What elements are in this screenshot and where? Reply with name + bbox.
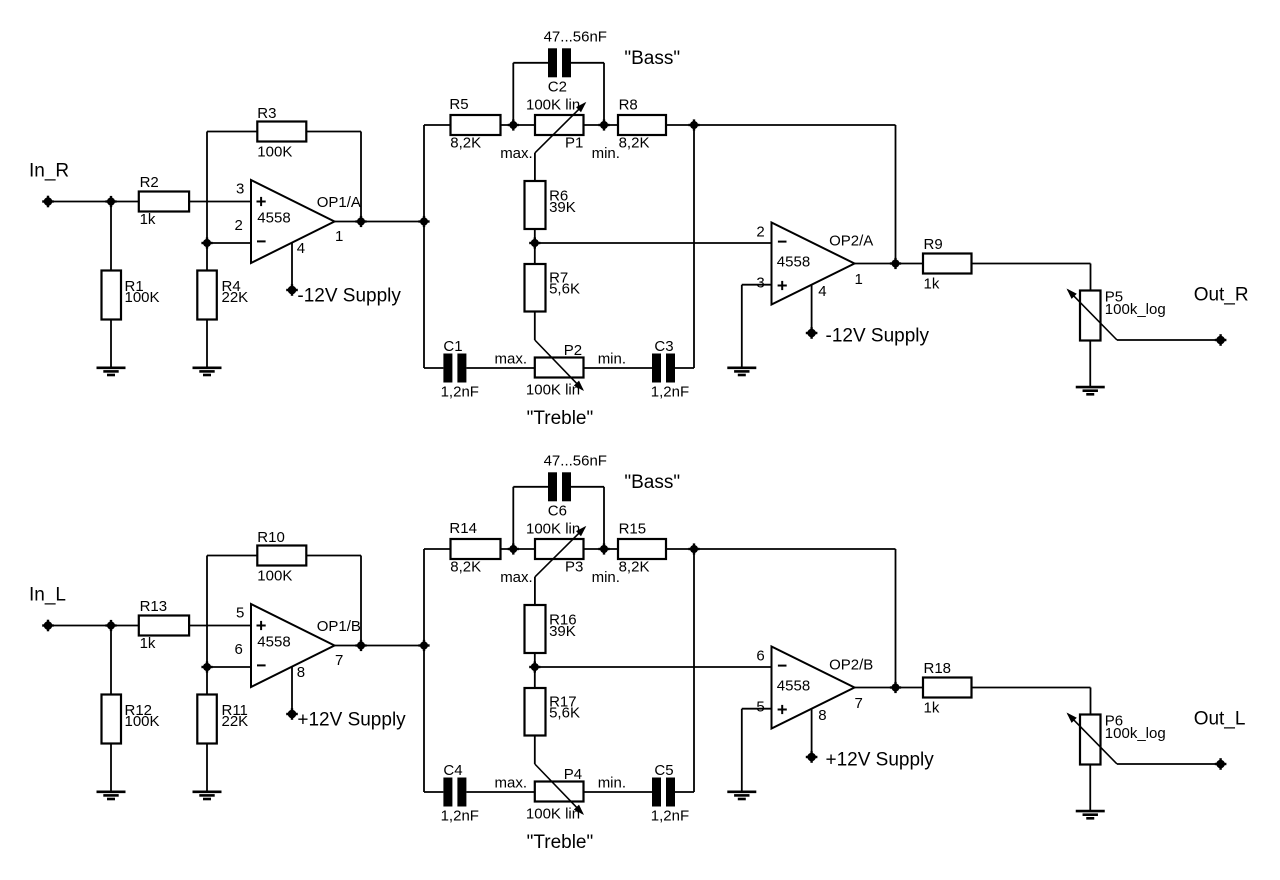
junction bass right node <box>598 119 609 130</box>
resistor R16 <box>525 605 546 653</box>
svg-text:39K: 39K <box>549 199 576 216</box>
capacitor C5 <box>652 778 675 807</box>
wire R5 to P1 <box>501 124 536 126</box>
svg-text:1,2nF: 1,2nF <box>651 807 689 824</box>
svg-text:R2: R2 <box>140 174 159 191</box>
plus input OP2/A <box>778 281 787 290</box>
label R13 <box>140 598 168 652</box>
node Out_R output terminal <box>1215 334 1227 346</box>
wire OP1/A output <box>335 221 425 223</box>
label 4558 OP1/A <box>257 210 290 227</box>
resistor R8 <box>618 115 666 135</box>
svg-text:4558: 4558 <box>257 634 290 651</box>
svg-text:1k: 1k <box>924 700 940 717</box>
label OP2/B <box>829 657 873 674</box>
svg-text:R14: R14 <box>449 520 477 537</box>
label C2 <box>548 79 567 96</box>
label R11 <box>222 702 249 730</box>
label R5 <box>449 96 481 151</box>
label max. (P1) <box>500 145 533 162</box>
label R15 <box>619 521 650 576</box>
svg-text:8,2K: 8,2K <box>619 559 650 576</box>
label R10 <box>257 529 292 585</box>
capacitor C3 <box>652 354 675 383</box>
svg-text:OP1/A: OP1/A <box>317 194 361 211</box>
junction feedback tap OP1 <box>355 216 366 227</box>
label P1 <box>565 135 583 152</box>
wire OP1/B output <box>335 645 425 647</box>
label R1 <box>125 278 160 306</box>
svg-text:min.: min. <box>598 775 626 792</box>
wire R4 to ground <box>206 320 208 368</box>
label "Bass" <box>624 48 680 69</box>
junction bass left node <box>508 543 519 554</box>
svg-text:6: 6 <box>756 648 764 665</box>
pin number 7 OP1/B <box>335 652 343 669</box>
wiper arrow P6 <box>1067 713 1118 765</box>
pin 8 supply stub OP2/B <box>811 709 813 757</box>
wire C3 to right rail <box>675 367 694 369</box>
label P2 <box>564 342 582 359</box>
wire C5 to right rail <box>675 791 694 793</box>
wire R8 to feedback rail <box>666 124 896 126</box>
wire right rail vertical <box>693 125 695 368</box>
svg-text:OP1/B: OP1/B <box>317 618 361 635</box>
svg-text:C3: C3 <box>654 338 673 355</box>
svg-text:C1: C1 <box>443 338 462 355</box>
label OP1/A <box>317 194 361 211</box>
svg-text:100k_log: 100k_log <box>1105 725 1166 742</box>
plus input OP1/A <box>257 197 266 206</box>
capacitor C2 <box>548 48 571 77</box>
ground under R1 <box>97 368 126 375</box>
label 100K lin (P1) <box>526 96 580 113</box>
wire P5 to ground <box>1089 341 1091 387</box>
minus input OP2/B <box>778 665 787 667</box>
wiper arrow P5 <box>1067 289 1118 341</box>
label R4 <box>222 278 249 306</box>
svg-text:2: 2 <box>235 217 243 234</box>
potentiometer P4 body <box>535 782 584 802</box>
junction OP2 output node <box>890 682 901 693</box>
pin number 8 OP2/B <box>818 707 826 724</box>
wire rail to R5 <box>424 124 451 126</box>
junction output node at left rail <box>418 640 429 651</box>
svg-text:22K: 22K <box>222 289 249 306</box>
svg-text:100K: 100K <box>125 289 160 306</box>
ground at OP2/B input <box>727 792 756 799</box>
wire R18 to P6 <box>972 688 1091 715</box>
svg-text:Out_R: Out_R <box>1194 285 1249 306</box>
wiper arrow P2 <box>535 340 584 391</box>
pin number 5 OP1/B <box>236 605 244 622</box>
pin 4 supply stub OP1/A <box>291 243 293 290</box>
svg-text:R5: R5 <box>449 96 468 113</box>
pin 8 supply stub OP1/B <box>291 667 293 714</box>
svg-text:R15: R15 <box>619 521 647 538</box>
potentiometer P1 body <box>535 115 584 135</box>
svg-text:"Bass": "Bass" <box>624 48 680 69</box>
label C1 <box>441 338 479 400</box>
svg-text:4: 4 <box>818 283 826 300</box>
wire input to R13 <box>48 625 139 627</box>
potentiometer P3 body <box>535 539 584 559</box>
label C6 <box>548 503 567 520</box>
wire R16 to R17 <box>534 653 536 688</box>
svg-text:6: 6 <box>235 641 243 658</box>
junction inverting node OP1 <box>201 237 212 248</box>
label OP1/B <box>317 618 361 635</box>
label P4 <box>564 766 582 783</box>
wire R9 to P5 <box>972 264 1091 291</box>
svg-text:min.: min. <box>592 569 620 586</box>
label C4 <box>441 762 479 824</box>
wire OP2/B output <box>855 687 924 689</box>
wire R10 left to inverting input <box>207 556 257 668</box>
label 4558 OP1/B <box>257 634 290 651</box>
node Out_L output terminal <box>1215 758 1227 770</box>
svg-text:22K: 22K <box>222 713 249 730</box>
svg-text:-12V Supply: -12V Supply <box>826 326 930 347</box>
svg-text:P1: P1 <box>565 135 583 152</box>
resistor R1 <box>102 271 122 320</box>
svg-text:4558: 4558 <box>777 254 810 271</box>
svg-text:3: 3 <box>756 275 764 292</box>
label +12V Supply (OP2) <box>826 750 935 771</box>
wire input to R2 <box>48 201 139 203</box>
capacitor C4 <box>443 778 466 807</box>
supply terminal OP2/A <box>806 327 818 339</box>
svg-text:max.: max. <box>495 351 528 368</box>
op-amp OP1/B <box>251 604 335 687</box>
junction inverting node OP1 <box>201 661 212 672</box>
svg-text:8: 8 <box>818 707 826 724</box>
svg-text:R18: R18 <box>924 660 952 677</box>
wire P3 to R15 <box>584 548 619 550</box>
svg-text:39K: 39K <box>549 623 576 640</box>
svg-text:5: 5 <box>756 699 764 716</box>
wire down to R11 <box>206 667 208 695</box>
wire R14 to P3 <box>501 548 536 550</box>
label 100K lin (P4) <box>526 805 580 822</box>
pin number 3 OP1/A <box>236 181 244 198</box>
wiper arrow P3 <box>535 526 586 577</box>
wiper arrow P4 <box>535 764 584 815</box>
junction mid divider node <box>529 237 540 248</box>
wire R10 right to output <box>306 556 361 646</box>
label P6 <box>1105 713 1166 743</box>
wire inverting junction to op-amp <box>207 666 251 668</box>
resistor R3 <box>257 122 306 142</box>
label min. (P2) <box>598 351 626 368</box>
label OP2/A <box>829 233 873 250</box>
wire OP2/B non-inverting to ground <box>742 709 772 791</box>
resistor R4 <box>197 271 217 320</box>
capacitor C1 <box>443 354 466 383</box>
resistor R12 <box>102 695 122 744</box>
resistor R14 <box>451 539 501 559</box>
svg-text:1: 1 <box>855 271 863 288</box>
pin number 5 OP2/B <box>756 699 764 716</box>
label R16 <box>549 612 577 641</box>
potentiometer P2 body <box>535 358 584 378</box>
node In_R input terminal <box>42 196 54 208</box>
svg-text:P2: P2 <box>564 342 582 359</box>
label R6 <box>549 188 576 217</box>
wire left rail vertical <box>423 549 425 792</box>
net label In_L <box>29 585 66 606</box>
wire inverting junction to op-amp <box>207 242 251 244</box>
svg-text:1k: 1k <box>924 276 940 293</box>
net label Out_L <box>1194 709 1246 730</box>
svg-text:2: 2 <box>756 224 764 241</box>
svg-text:max.: max. <box>500 569 533 586</box>
wire wiper P5 to output terminal <box>1117 339 1221 341</box>
svg-text:Out_L: Out_L <box>1194 709 1246 730</box>
wire up to capacitor C2 left <box>513 63 548 125</box>
svg-text:max.: max. <box>495 775 528 792</box>
wire OP2/A non-inverting to ground <box>742 285 772 367</box>
svg-text:min.: min. <box>598 351 626 368</box>
resistor R18 <box>923 678 972 698</box>
svg-text:100k_log: 100k_log <box>1105 301 1166 318</box>
svg-text:47...56nF: 47...56nF <box>544 29 607 46</box>
label R9 <box>924 236 943 293</box>
wire C1 to P2 <box>466 367 534 369</box>
pin number 1 OP2/A <box>855 271 863 288</box>
svg-text:1,2nF: 1,2nF <box>651 383 689 400</box>
label 4558 OP2/A <box>777 254 810 271</box>
svg-text:4: 4 <box>297 240 305 257</box>
label "Treble" <box>527 832 594 853</box>
svg-text:100K lin: 100K lin <box>526 96 580 113</box>
resistor R6 <box>525 181 546 229</box>
wire down to R1 <box>110 202 112 271</box>
wire wiper P1 to R6 <box>534 153 536 181</box>
net label Out_R <box>1194 285 1249 306</box>
svg-text:max.: max. <box>500 145 533 162</box>
resistor R9 <box>923 254 972 274</box>
pin number 7 OP2/B <box>855 695 863 712</box>
wire up to capacitor C6 left <box>513 487 548 549</box>
label min. (P4) <box>598 775 626 792</box>
label P5 <box>1105 289 1166 319</box>
wire rail to C1 <box>424 367 443 369</box>
label R2 <box>140 174 159 228</box>
svg-text:47...56nF: 47...56nF <box>544 453 607 470</box>
wire feedback rail vertical OP2 <box>895 549 897 688</box>
resistor R17 <box>525 688 546 736</box>
svg-text:5,6K: 5,6K <box>549 281 580 298</box>
wire C4 to P4 <box>466 791 534 793</box>
label R7 <box>549 270 580 298</box>
resistor R7 <box>525 264 546 312</box>
svg-text:P3: P3 <box>565 559 583 576</box>
pin number 8 OP1/B <box>297 664 305 681</box>
svg-text:P4: P4 <box>564 766 582 783</box>
wire R13 to op-amp pin 5 <box>189 625 251 627</box>
ground under R12 <box>97 792 126 799</box>
svg-text:1k: 1k <box>140 635 156 652</box>
wire wiper P3 to R16 <box>534 577 536 605</box>
junction output node at left rail <box>418 216 429 227</box>
wire wiper P6 to output terminal <box>1117 763 1221 765</box>
pin number 2 OP2/A <box>756 224 764 241</box>
junction bass left node <box>508 119 519 130</box>
junction top right rail <box>688 119 699 130</box>
svg-text:3: 3 <box>236 181 244 198</box>
svg-text:"Bass": "Bass" <box>624 472 680 493</box>
label C5 <box>651 762 689 824</box>
label P3 <box>565 559 583 576</box>
svg-text:OP2/B: OP2/B <box>829 657 873 674</box>
svg-text:8,2K: 8,2K <box>619 135 650 152</box>
junction input node <box>105 196 116 207</box>
label max. (P2) <box>495 351 528 368</box>
svg-text:"Treble": "Treble" <box>527 832 594 853</box>
svg-text:+12V Supply: +12V Supply <box>297 710 406 731</box>
svg-text:1: 1 <box>335 228 343 245</box>
resistor R10 <box>257 546 306 566</box>
minus input OP1/B <box>257 664 266 666</box>
wire down to R4 <box>206 243 208 271</box>
resistor R13 <box>139 616 189 636</box>
svg-text:R3: R3 <box>257 105 276 122</box>
pin number 6 OP1/B <box>235 641 243 658</box>
wire rail to C4 <box>424 791 443 793</box>
label R3 <box>257 105 292 161</box>
resistor R15 <box>618 539 666 559</box>
wire R15 to feedback rail <box>666 548 896 550</box>
svg-text:R8: R8 <box>619 97 638 114</box>
svg-text:C4: C4 <box>443 762 462 779</box>
svg-text:OP2/A: OP2/A <box>829 233 873 250</box>
svg-text:1,2nF: 1,2nF <box>441 807 479 824</box>
label max. (P4) <box>495 775 528 792</box>
svg-text:R9: R9 <box>924 236 943 253</box>
label C3 <box>651 338 689 400</box>
wire R12 to ground <box>110 744 112 792</box>
label 47...56nF <box>544 29 607 46</box>
wire left rail vertical <box>423 125 425 368</box>
plus input OP2/B <box>778 705 787 714</box>
wire R7 to wiper P2 <box>534 312 536 341</box>
ground under R4 <box>193 368 222 375</box>
pin 4 supply stub OP2/A <box>811 285 813 333</box>
ground under P5 <box>1076 387 1105 394</box>
svg-text:7: 7 <box>335 652 343 669</box>
pin number 4 OP1/A <box>297 240 305 257</box>
pin number 1 OP1/A <box>335 228 343 245</box>
pin number 6 OP2/B <box>756 648 764 665</box>
svg-text:4558: 4558 <box>777 678 810 695</box>
label max. (P3) <box>500 569 533 586</box>
wire R1 to ground <box>110 320 112 368</box>
wire capacitor C6 right down <box>571 487 604 549</box>
wire P4 to C5 <box>584 791 653 793</box>
label R18 <box>924 660 952 717</box>
label 47...56nF <box>544 453 607 470</box>
wire capacitor C2 right down <box>571 63 604 125</box>
plus input OP1/B <box>257 621 266 630</box>
wire P2 to C3 <box>584 367 653 369</box>
wire OP2/A output <box>855 263 924 265</box>
svg-text:R10: R10 <box>257 529 285 546</box>
svg-text:100K lin: 100K lin <box>526 520 580 537</box>
svg-text:C5: C5 <box>654 762 673 779</box>
junction mid divider node <box>529 661 540 672</box>
wire R3 right to output <box>306 132 361 222</box>
svg-text:5: 5 <box>236 605 244 622</box>
svg-text:min.: min. <box>592 145 620 162</box>
label R12 <box>125 702 160 730</box>
junction top right rail <box>688 543 699 554</box>
wire P6 to ground <box>1089 765 1091 811</box>
minus input OP2/A <box>778 241 787 243</box>
ground under R11 <box>193 792 222 799</box>
svg-text:100K lin: 100K lin <box>526 381 580 398</box>
wire rail to R14 <box>424 548 451 550</box>
svg-text:8,2K: 8,2K <box>450 135 481 152</box>
resistor R5 <box>451 115 501 135</box>
label 4558 OP2/B <box>777 678 810 695</box>
label R17 <box>549 694 580 722</box>
potentiometer P6 body <box>1080 715 1101 765</box>
op-amp OP2/A <box>772 223 855 305</box>
pin number 2 OP1/A <box>235 217 243 234</box>
label "Treble" <box>527 408 594 429</box>
label -12V Supply (OP1) <box>297 286 401 307</box>
svg-text:C6: C6 <box>548 503 567 520</box>
svg-text:-12V Supply: -12V Supply <box>297 286 401 307</box>
svg-text:R13: R13 <box>140 598 168 615</box>
node In_L input terminal <box>42 620 54 632</box>
label R14 <box>449 520 481 575</box>
junction input node <box>105 620 116 631</box>
svg-text:8: 8 <box>297 664 305 681</box>
ground at OP2/A input <box>727 368 756 375</box>
resistor R11 <box>197 695 217 744</box>
capacitor C6 <box>548 472 571 501</box>
label min. (P1) <box>592 145 620 162</box>
wire divider to OP2/A inverting input <box>535 242 772 244</box>
wire right rail vertical <box>693 549 695 792</box>
junction OP2 output node <box>890 258 901 269</box>
svg-text:8,2K: 8,2K <box>450 559 481 576</box>
wire down to R12 <box>110 626 112 695</box>
op-amp OP2/B <box>772 647 855 729</box>
wire R11 to ground <box>206 744 208 792</box>
net label In_R <box>29 161 69 182</box>
svg-text:100K: 100K <box>257 568 292 585</box>
minus input OP1/A <box>257 240 266 242</box>
svg-text:5,6K: 5,6K <box>549 705 580 722</box>
svg-text:+12V Supply: +12V Supply <box>826 750 935 771</box>
svg-text:1,2nF: 1,2nF <box>441 383 479 400</box>
wire R6 to R7 <box>534 229 536 264</box>
ground under P6 <box>1076 811 1105 818</box>
svg-text:100K lin: 100K lin <box>526 805 580 822</box>
label min. (P3) <box>592 569 620 586</box>
junction feedback tap OP1 <box>355 640 366 651</box>
junction bass right node <box>598 543 609 554</box>
label 100K lin (P2) <box>526 381 580 398</box>
pin number 3 OP2/A <box>756 275 764 292</box>
wire R3 left to inverting input <box>207 132 257 244</box>
wire R17 to wiper P4 <box>534 736 536 765</box>
svg-text:100K: 100K <box>257 144 292 161</box>
label R8 <box>619 97 650 152</box>
